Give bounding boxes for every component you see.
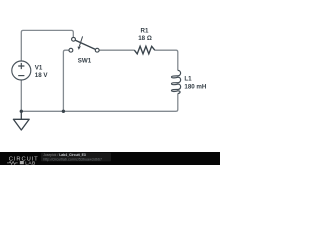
wire from V1 top to switch SW1 left terminal xyxy=(21,30,73,61)
resistor R1 xyxy=(134,46,154,54)
svg-text:18 Ω: 18 Ω xyxy=(138,35,152,42)
wire from V1 bottom to bottom rail xyxy=(20,80,22,112)
switch SW1 xyxy=(69,36,99,52)
wire from resistor R1 to inductor L1 top xyxy=(155,50,178,70)
voltage source V1 xyxy=(12,61,31,80)
CircuitLab logo LAB xyxy=(20,161,24,164)
svg-text:http://circuitlab.com/c/53buaw: http://circuitlab.com/c/53buaw3db67 xyxy=(43,158,102,162)
footer black bar xyxy=(0,152,220,165)
node junction dot at bottom rail / ground xyxy=(20,110,23,113)
node junction dot at bottom rail / switch branch xyxy=(62,110,65,113)
ground xyxy=(13,111,29,130)
wire from switch SW1 common to resistor R1 xyxy=(99,49,135,51)
svg-text:V1: V1 xyxy=(35,64,43,71)
svg-text:SW1: SW1 xyxy=(78,58,92,65)
svg-text:R1: R1 xyxy=(141,27,149,34)
svg-text:18 V: 18 V xyxy=(35,72,49,79)
wire from inductor L1 bottom to bottom rail xyxy=(21,94,178,112)
footer credit background box xyxy=(41,153,111,162)
svg-text:L1: L1 xyxy=(184,76,192,83)
svg-text:180 mH: 180 mH xyxy=(184,83,207,90)
svg-text:Josepick / Lab4_Circuit_E3: Josepick / Lab4_Circuit_E3 xyxy=(43,153,86,157)
svg-text:LAB: LAB xyxy=(25,160,36,165)
wire from switch SW1 throw 2 down to bottom rail xyxy=(63,50,69,111)
CircuitLab logo zigzag xyxy=(7,161,18,164)
inductor L1 xyxy=(172,70,181,93)
